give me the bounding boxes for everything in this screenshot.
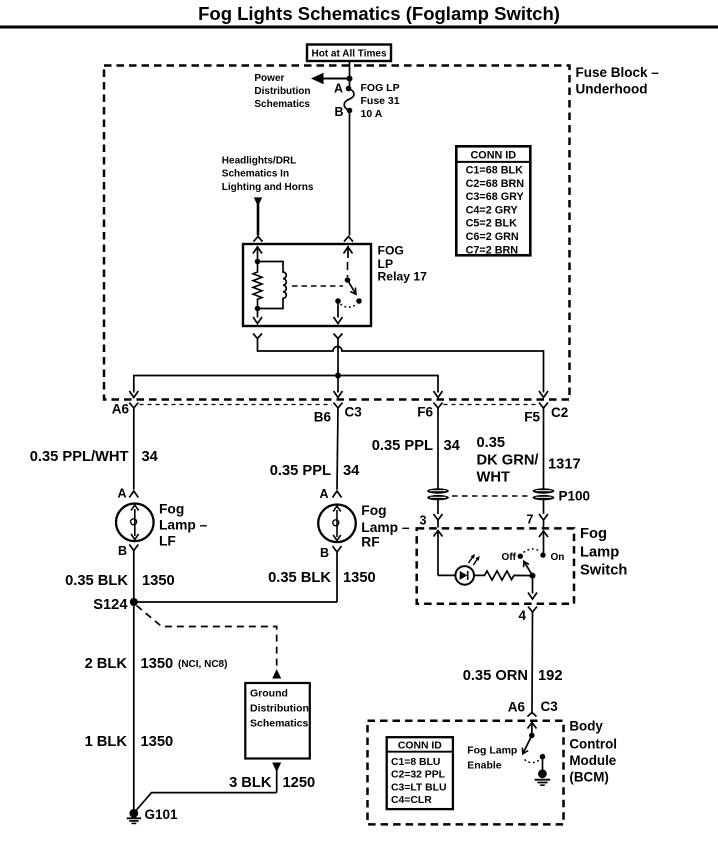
svg-text:192: 192	[538, 668, 563, 684]
BCM connector chevron	[528, 713, 537, 717]
svg-text:RF: RF	[361, 534, 379, 549]
wire: ground distribution down to 3 BLK run	[276, 770, 278, 793]
svg-text:34: 34	[142, 449, 159, 465]
fog lamp LF bulb	[116, 504, 154, 542]
wire: splice right to F6	[338, 376, 438, 393]
svg-text:C1=8 BLU: C1=8 BLU	[391, 757, 440, 768]
wire: S124 down to G101	[133, 602, 135, 810]
chevron below relay right pin	[334, 334, 343, 339]
wire: P100 to switch pin 3	[437, 500, 439, 514]
svg-text:Lamp: Lamp	[580, 544, 619, 560]
switch pin 3 entry arrow	[434, 531, 443, 537]
dashed throw arc BCM	[525, 760, 540, 763]
relay switch feed pin (up arrow inside, right)	[347, 246, 349, 258]
svg-text:A: A	[117, 487, 126, 501]
svg-text:Fog Lamp: Fog Lamp	[467, 745, 517, 757]
contact On	[540, 552, 545, 557]
svg-text:Switch: Switch	[580, 562, 627, 578]
svg-text:S124: S124	[93, 597, 128, 613]
svg-text:Fog: Fog	[159, 501, 184, 516]
wire: B6 down to fog lamp RF	[337, 408, 338, 490]
node: power distribution branch	[347, 76, 353, 82]
wire: P100 to switch pin 7	[543, 500, 545, 514]
indicator LED lamp	[455, 566, 474, 585]
svg-text:1350: 1350	[141, 734, 174, 750]
svg-text:3: 3	[420, 514, 427, 528]
svg-text:Module: Module	[569, 753, 616, 768]
BCM box (dashed)	[368, 721, 564, 825]
svg-text:1350: 1350	[142, 573, 175, 589]
svg-text:34: 34	[444, 438, 461, 454]
hot at all times box	[307, 45, 391, 62]
svg-text:LF: LF	[159, 533, 176, 548]
node: relay coil bottom	[255, 306, 261, 312]
svg-text:F5: F5	[524, 410, 540, 425]
dotted throw arc Off-On	[524, 549, 541, 553]
chevron at relay top left pin	[254, 237, 263, 242]
relay switch lever	[348, 280, 356, 294]
svg-text:FOG LP: FOG LP	[361, 82, 400, 94]
svg-text:Distribution: Distribution	[254, 86, 310, 97]
svg-text:(BCM): (BCM)	[569, 769, 608, 784]
arrow out of ground distribution box	[272, 763, 281, 773]
connector pin 4 chevron below switch box	[528, 607, 537, 613]
svg-text:C3: C3	[541, 699, 559, 714]
svg-text:1 BLK: 1 BLK	[85, 734, 128, 750]
node: splice to A6/B6/F6	[335, 373, 341, 379]
svg-text:Fuse Block –: Fuse Block –	[576, 65, 660, 80]
svg-text:Lighting and Horns: Lighting and Horns	[222, 182, 314, 193]
relay box: FOG LP Relay 17	[243, 244, 371, 326]
wire: F6 down to P100	[437, 408, 439, 489]
BCM pin entry arrow	[528, 723, 537, 729]
dotted throw arc	[341, 304, 357, 307]
svg-text:DK GRN/: DK GRN/	[477, 453, 539, 469]
headlights feed arrow into relay	[254, 197, 262, 206]
dashed reference: S124 to ground distribution	[137, 606, 277, 669]
fuse block box (dashed) Fuse Block - Underhood	[104, 66, 570, 400]
thin dashed connector line F6-F5	[444, 404, 539, 406]
wire: A6 down to fog lamp LF	[133, 408, 135, 490]
svg-text:CONN ID: CONN ID	[471, 150, 517, 162]
svg-text:A6: A6	[508, 700, 526, 715]
svg-text:34: 34	[343, 463, 360, 479]
svg-text:0.35 BLK: 0.35 BLK	[65, 573, 128, 589]
svg-text:C5=2 BLK: C5=2 BLK	[466, 218, 518, 230]
svg-text:3 BLK: 3 BLK	[229, 775, 272, 791]
svg-text:C1=68 BLK: C1=68 BLK	[466, 165, 524, 177]
BCM fog lamp enable switch lever	[523, 735, 532, 753]
svg-text:0.35: 0.35	[477, 435, 506, 451]
svg-text:WHT: WHT	[477, 469, 510, 485]
connector B6/C3 chevron	[334, 403, 343, 409]
fog lamp switch box (dashed)	[417, 528, 574, 603]
wire: splice down to B6	[337, 376, 339, 393]
svg-text:CONN ID: CONN ID	[398, 740, 442, 751]
wire: fuse B down to relay	[349, 111, 351, 236]
fuse element squiggle	[344, 89, 354, 111]
svg-text:1317: 1317	[548, 456, 581, 472]
svg-text:C4=2 GRY: C4=2 GRY	[466, 204, 519, 216]
svg-text:Fuse 31: Fuse 31	[361, 95, 400, 107]
svg-text:F6: F6	[417, 405, 433, 420]
relay switch contact (to lamps)	[335, 298, 341, 304]
svg-text:FOG: FOG	[378, 243, 404, 257]
svg-text:0.35 ORN: 0.35 ORN	[463, 668, 528, 684]
thin dashed connector line A6-B6	[140, 404, 333, 406]
wire to indicator lamp	[438, 574, 456, 576]
svg-text:C2=32 PPL: C2=32 PPL	[391, 770, 446, 781]
svg-text:Control: Control	[569, 737, 617, 752]
switch illumination resistor	[474, 571, 533, 580]
svg-text:C6=2 GRN: C6=2 GRN	[466, 231, 519, 243]
svg-text:0.35 PPL: 0.35 PPL	[372, 438, 433, 454]
connector F5/C2 chevron	[539, 403, 548, 409]
svg-text:Fog: Fog	[580, 526, 607, 542]
wire/arrow to power distribution schematics	[321, 78, 350, 80]
svg-text:Lamp –: Lamp –	[159, 517, 208, 532]
svg-text:0.35 PPL: 0.35 PPL	[270, 463, 331, 479]
svg-text:2 BLK: 2 BLK	[85, 656, 128, 672]
connector A6 chevron	[129, 403, 138, 409]
switch lever	[524, 562, 533, 576]
switch output wire down (pin 4)	[532, 576, 534, 594]
svg-text:10 A: 10 A	[361, 108, 383, 120]
svg-text:Fog Lights Schematics (Foglamp: Fog Lights Schematics (Foglamp Switch)	[198, 3, 560, 24]
svg-text:1350: 1350	[141, 656, 174, 672]
relay switch dashed actuator links	[347, 262, 349, 277]
wire: hot at all times down to fuse A	[349, 61, 351, 89]
wire: F5 down to P100	[543, 408, 545, 489]
chevron at relay top right pin	[344, 237, 353, 242]
svg-text:B: B	[118, 544, 127, 558]
svg-text:Body: Body	[569, 718, 603, 733]
relay resistor (parallel with coil)	[253, 262, 262, 309]
svg-text:7: 7	[527, 513, 534, 527]
svg-text:Hot at All Times: Hot at All Times	[311, 49, 386, 60]
svg-text:C3=68 GRY: C3=68 GRY	[466, 191, 525, 203]
fog lamp RF bulb	[318, 505, 356, 543]
chevron below relay left pin	[253, 334, 262, 339]
svg-text:Ground: Ground	[250, 688, 288, 700]
wire: lamp LF down to S124	[133, 551, 135, 603]
svg-text:0.35 BLK: 0.35 BLK	[268, 570, 331, 586]
arrow into ground distribution box	[272, 669, 281, 679]
svg-text:Schematics In: Schematics In	[222, 168, 289, 179]
relay coil feed pin (up arrow inside, left)	[257, 246, 259, 261]
wire: On contact up to pin 7	[543, 531, 545, 555]
svg-text:0.35 PPL/WHT: 0.35 PPL/WHT	[30, 449, 129, 465]
svg-text:C2: C2	[551, 405, 568, 420]
node: relay switch pivot	[345, 277, 351, 283]
svg-text:C7=2 BRN: C7=2 BRN	[466, 244, 519, 256]
wire: splice left to A6	[134, 376, 338, 393]
light emission arrows	[469, 556, 474, 563]
node: relay coil top	[255, 259, 261, 265]
svg-text:C2=68 BRN: C2=68 BRN	[466, 178, 525, 190]
svg-text:A: A	[319, 487, 328, 501]
wire: 3 BLK run to G101	[136, 793, 277, 811]
svg-text:G101: G101	[145, 807, 179, 822]
BCM internal ground	[542, 757, 544, 771]
svg-text:C4=CLR: C4=CLR	[391, 795, 432, 806]
connector F6 chevron	[434, 403, 443, 409]
svg-text:B: B	[320, 546, 329, 560]
svg-text:Lamp –: Lamp –	[361, 520, 410, 535]
svg-text:Off: Off	[502, 552, 517, 563]
relay switched output (down arrow inside)	[337, 301, 339, 318]
BCM conn id table	[387, 737, 453, 809]
svg-text:Schematics: Schematics	[250, 718, 309, 730]
relay switch contact (unused)	[356, 298, 362, 304]
svg-text:On: On	[551, 552, 565, 563]
dashed tie between P100 halves	[452, 495, 529, 497]
relay coil winding	[258, 262, 287, 309]
svg-text:(NCI, NC8): (NCI, NC8)	[178, 659, 227, 670]
svg-text:A6: A6	[112, 402, 130, 417]
svg-text:P100: P100	[559, 489, 591, 504]
node: switch common	[530, 573, 536, 579]
svg-text:Relay 17: Relay 17	[378, 270, 428, 284]
relay coil output pin (down arrow inside)	[257, 309, 259, 318]
svg-text:Power: Power	[254, 73, 284, 84]
wire: S124 to RF ground run	[134, 601, 337, 603]
wire: lamp RF down to S124 run	[336, 552, 338, 602]
svg-text:Distribution: Distribution	[250, 703, 309, 715]
ground G101	[129, 809, 138, 818]
inline connector P100 (left half)	[427, 488, 449, 500]
BCM switch contact	[540, 754, 546, 760]
wire: relay switched output down to splice	[337, 339, 339, 376]
svg-text:Schematics: Schematics	[254, 99, 310, 110]
svg-text:C3=LT BLU: C3=LT BLU	[391, 782, 447, 793]
svg-text:A: A	[334, 82, 343, 96]
inline connector P100 (right half)	[533, 488, 555, 500]
svg-text:Underhood: Underhood	[576, 81, 648, 96]
svg-text:Headlights/DRL: Headlights/DRL	[222, 155, 296, 166]
contact Off	[518, 554, 523, 559]
svg-text:1250: 1250	[283, 775, 316, 791]
wire: relay coil output to F5 (with hop over B6 wire)	[258, 339, 544, 393]
ground distribution schematics box	[245, 683, 309, 759]
svg-text:1350: 1350	[343, 570, 376, 586]
wire: switch pin 4 down to BCM	[531, 612, 534, 713]
conn id table (fuse block)	[456, 146, 530, 256]
svg-text:Enable: Enable	[467, 760, 502, 772]
svg-text:B6: B6	[314, 410, 332, 425]
svg-text:4: 4	[518, 608, 526, 623]
svg-text:C3: C3	[345, 405, 363, 420]
node: BCM switch top	[529, 733, 535, 739]
svg-text:Fog: Fog	[361, 503, 386, 518]
svg-text:B: B	[334, 105, 343, 119]
